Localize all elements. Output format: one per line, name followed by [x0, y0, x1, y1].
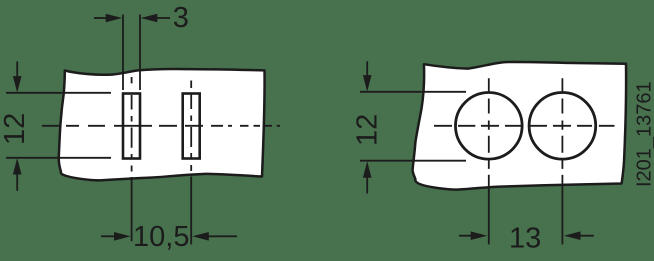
centerline (right panel, horizontal): [434, 125, 615, 127]
dimension 13: left leader + arrow: [459, 231, 487, 240]
dimension 12 (right panel): bottom extension line: [360, 160, 466, 162]
svg-text:I201_13761: I201_13761: [634, 81, 654, 187]
plate (right panel): [413, 62, 627, 190]
svg-text:3: 3: [173, 2, 189, 34]
extension line for 13 (left): [488, 175, 490, 245]
svg-text:13: 13: [509, 222, 541, 254]
svg-text:12: 12: [352, 114, 384, 146]
svg-text:12: 12: [0, 113, 31, 145]
dimension 10,5: left leader + arrow: [101, 232, 131, 241]
extension line for 10,5 (left): [131, 177, 133, 241]
extension line for 13 (right): [561, 175, 563, 245]
slot S1: [123, 94, 140, 159]
dimension 10,5: right leader + arrow: [192, 232, 237, 241]
dimension 12 (right panel): top arrow: [363, 61, 372, 91]
hole H2: [529, 93, 596, 160]
slot S2 centerline (vertical): [190, 81, 192, 172]
dimension 12 (left): top arrow: [13, 62, 22, 93]
hole H2 centerline (vertical): [561, 78, 563, 169]
dimension 12 (right panel): top extension line: [360, 91, 466, 93]
dimension 12 (left): top extension line: [6, 92, 111, 94]
slot S2: [183, 94, 200, 159]
dimension 3: extension line left: [122, 15, 124, 91]
extension line for 10,5 (right): [190, 177, 192, 245]
hole H1: [456, 93, 523, 160]
dimension 3: extension line right: [139, 15, 141, 91]
dimension 12 (left): bottom arrow: [13, 158, 22, 191]
plate (left panel): [59, 69, 265, 180]
dimension 12 (left): bottom extension line: [6, 157, 111, 159]
centerline (left panel, horizontal): [42, 125, 280, 127]
svg-text:10,5: 10,5: [133, 221, 189, 253]
hole H1 centerline (vertical): [488, 78, 490, 169]
dimension 3: right leader + arrow: [141, 14, 170, 23]
dimension 13: right leader + arrow: [564, 231, 594, 240]
dimension 3: left leader + arrow: [94, 14, 122, 23]
dimension 12 (right panel): bottom arrow: [363, 161, 372, 193]
slot S1 centerline (vertical): [131, 77, 133, 172]
